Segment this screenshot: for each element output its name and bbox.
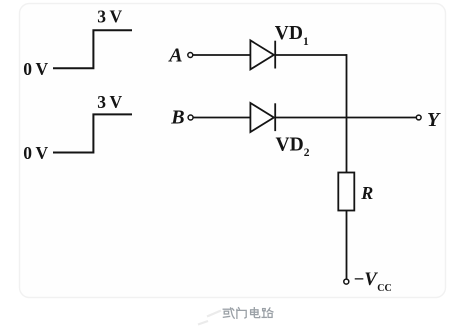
diode VD1 <box>250 40 275 69</box>
svg-text:B: B <box>170 106 184 128</box>
label VD1 <box>275 23 309 48</box>
waveform input B (0V to 3V step) <box>53 114 132 152</box>
svg-text:1: 1 <box>303 36 309 48</box>
svg-text:0 V: 0 V <box>23 59 48 79</box>
svg-text:R: R <box>360 183 373 203</box>
caption watermark faint strokes <box>198 311 221 325</box>
label VD2 <box>276 134 310 158</box>
svg-text:VD: VD <box>275 23 303 44</box>
terminal B <box>188 115 193 120</box>
terminal A <box>188 53 193 58</box>
resistor R <box>338 173 354 211</box>
wire A to VD1 <box>193 54 250 56</box>
terminal -Vcc <box>344 279 349 284</box>
glyph 电 <box>251 308 260 318</box>
label -Vcc <box>354 270 392 294</box>
wire resistor to -Vcc terminal <box>346 211 348 279</box>
wire VD1 to bus corner <box>275 54 346 56</box>
terminal Y <box>416 115 421 120</box>
waveform input A (0V to 3V step) <box>53 30 132 68</box>
glyph 路 <box>262 308 273 318</box>
caption text 或门电路 (drawn as vector strokes) <box>223 308 273 319</box>
svg-text:0 V: 0 V <box>23 143 48 163</box>
glyph 门 <box>237 308 246 319</box>
svg-text:Y: Y <box>427 109 441 131</box>
wire vertical bus to resistor <box>346 54 348 172</box>
svg-text:2: 2 <box>304 147 310 159</box>
svg-text:VD: VD <box>276 134 304 155</box>
glyph 或 <box>223 308 234 318</box>
diode VD2 <box>250 103 275 132</box>
svg-text:A: A <box>167 44 182 66</box>
wire B to VD2 <box>194 117 251 119</box>
svg-text:−V: −V <box>354 270 379 290</box>
svg-text:3 V: 3 V <box>97 7 122 27</box>
svg-text:3 V: 3 V <box>97 92 122 112</box>
svg-text:CC: CC <box>377 283 391 294</box>
wire VD2 to output Y <box>275 117 416 119</box>
